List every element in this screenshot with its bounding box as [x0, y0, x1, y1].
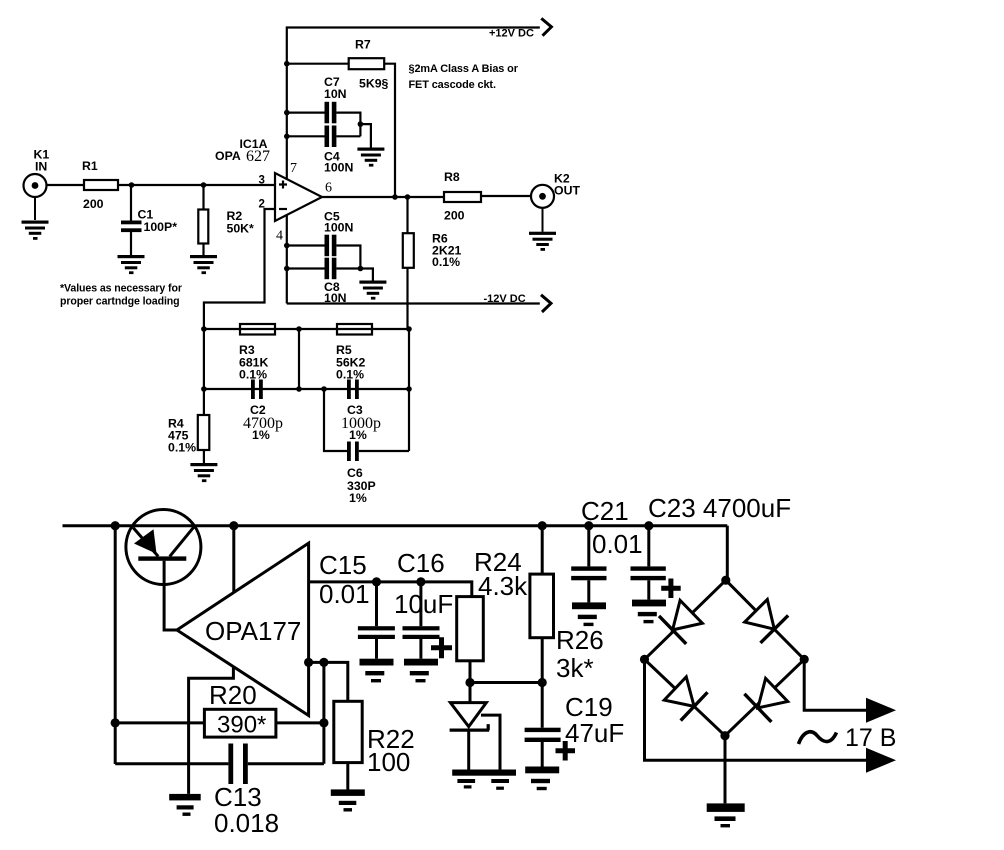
- svg-text:§2mA Class A Bias or: §2mA Class A Bias or: [409, 63, 519, 75]
- svg-text:C6: C6: [347, 466, 363, 480]
- capacitor C23: [631, 493, 792, 600]
- svg-text:0.1%: 0.1%: [239, 368, 267, 382]
- node dot R1/R2: [201, 182, 207, 188]
- node dot output/R7: [392, 194, 398, 200]
- node dot C8: [284, 266, 290, 272]
- capacitor C8: [287, 258, 373, 305]
- feedback row 1 wire: [204, 328, 409, 330]
- svg-text:17 В: 17 В: [845, 724, 896, 752]
- opamp output wire: [309, 582, 472, 597]
- capacitor C13: [115, 744, 324, 839]
- wire node to pin 3: [204, 184, 276, 186]
- svg-text:R1: R1: [82, 159, 98, 173]
- ground C5/C8: [359, 281, 386, 300]
- pin 7 supply rail: [287, 28, 540, 181]
- diode D4 bottom-right: [744, 676, 790, 722]
- svg-text:OUT: OUT: [554, 184, 580, 198]
- ground under R22: [331, 789, 365, 811]
- capacitor C5: [287, 210, 361, 269]
- svg-text:R8: R8: [444, 170, 460, 184]
- right rail row1-C6: [408, 329, 410, 451]
- resistor R3: [239, 324, 275, 382]
- node dot C5: [284, 243, 290, 249]
- AC arrow 2: [866, 748, 896, 773]
- diode D2 top-right: [742, 597, 788, 643]
- link row1-row2: [298, 329, 300, 389]
- resistor R7: [287, 38, 389, 91]
- connector K2: [531, 172, 580, 208]
- node dot row2 mid: [296, 386, 302, 392]
- zener diode D5: [450, 683, 500, 770]
- svg-text:7: 7: [290, 161, 297, 176]
- node dot R26 bottom: [538, 678, 547, 687]
- resistor R2: [198, 185, 254, 255]
- AC arrow 1: [866, 698, 896, 723]
- resistor R22: [334, 701, 415, 791]
- svg-text:3k*: 3k*: [556, 653, 594, 683]
- node dot R7 left: [284, 61, 290, 67]
- bridge top wire: [726, 526, 729, 581]
- capacitor C4: [287, 124, 361, 174]
- node dot C4: [284, 134, 290, 140]
- inverting input loop: [189, 668, 234, 794]
- node dot row1 mid: [296, 326, 302, 332]
- node dot R20 right: [319, 718, 328, 727]
- node dot C15: [372, 577, 381, 586]
- diode D3 bottom-left: [662, 674, 708, 720]
- capacitor C19: [525, 683, 625, 767]
- node dot row1 left: [201, 326, 207, 332]
- svg-text:4.3k: 4.3k: [478, 571, 528, 601]
- node dot C16: [416, 577, 425, 586]
- wire node down to R20/C13: [322, 662, 325, 763]
- svg-text:0.018: 0.018: [214, 808, 279, 838]
- diode D1 top-left: [659, 598, 705, 644]
- node dot C5/C8 common: [358, 266, 364, 272]
- svg-text:100N: 100N: [324, 221, 354, 235]
- svg-text:1%: 1%: [349, 428, 367, 442]
- svg-text:0.1%: 0.1%: [336, 368, 364, 382]
- svg-text:200: 200: [444, 209, 465, 223]
- wire K1 to R1: [47, 184, 85, 186]
- -12V DC arrow: [541, 295, 551, 312]
- node dot output/R6: [405, 194, 411, 200]
- node dot R20 left rail: [111, 718, 120, 727]
- svg-text:+12V DC: +12V DC: [489, 28, 534, 40]
- resistor R6: [403, 197, 462, 269]
- resistor R4: [168, 389, 209, 463]
- resistor R1: [82, 159, 118, 211]
- svg-text:*Values as necessary for: *Values as necessary for: [60, 283, 182, 295]
- svg-text:C21: C21: [581, 496, 629, 526]
- AC tilde: [799, 732, 837, 744]
- node dot rail/R26: [538, 521, 547, 530]
- left rail row1-row2: [203, 329, 205, 389]
- svg-text:200: 200: [83, 197, 104, 211]
- node dot C7: [284, 110, 290, 116]
- AC output wire 2: [645, 659, 871, 760]
- pin 4 wire down: [286, 215, 288, 304]
- ground under R4: [190, 463, 217, 482]
- resistor R8: [444, 170, 481, 223]
- wire R8 to K2: [481, 195, 531, 197]
- svg-text:proper cartndge loading: proper cartndge loading: [60, 296, 180, 308]
- node dot R24 bottom: [465, 678, 474, 687]
- node dot bridge bottom: [720, 731, 729, 740]
- pin 2 wire down to feedback: [204, 209, 275, 329]
- capacitor C21: [571, 496, 642, 602]
- connector K1: [24, 148, 50, 198]
- node dot row1 right: [406, 326, 412, 332]
- output wire pin6 to R8: [322, 196, 444, 198]
- node dot row2 left: [201, 386, 207, 392]
- svg-text:-12V DC: -12V DC: [484, 293, 526, 305]
- node dot row2 C6 tap: [321, 386, 327, 392]
- svg-text:OPA177: OPA177: [205, 616, 301, 646]
- svg-text:0.1%: 0.1%: [432, 255, 460, 269]
- ground C7/C4: [357, 148, 384, 167]
- node dot bridge top: [721, 576, 730, 585]
- svg-text:R26: R26: [556, 625, 604, 655]
- double ground under zener: [452, 770, 516, 790]
- svg-text:4: 4: [276, 229, 283, 244]
- ground under C16: [404, 659, 438, 683]
- opamp V+ wire: [232, 526, 235, 593]
- ground under bridge: [707, 803, 745, 827]
- wire opamp edge to R22: [309, 662, 348, 701]
- capacitor C6 branch: [324, 389, 347, 451]
- node dot feedback: [319, 658, 328, 667]
- svg-text:C15: C15: [319, 550, 367, 580]
- wire R6 down to feedback rail: [406, 268, 408, 330]
- capacitor C16: [394, 548, 453, 659]
- svg-text:C23 4700uF: C23 4700uF: [648, 493, 791, 523]
- wire R24 to R26: [470, 681, 542, 684]
- ground inv loop: [169, 794, 201, 816]
- resistor R26: [530, 526, 604, 683]
- -12V rail: [287, 302, 540, 304]
- ground under C19: [525, 767, 559, 791]
- svg-text:FET cascode ckt.: FET cascode ckt.: [409, 79, 496, 91]
- op-amp U2 OPA177: [177, 543, 309, 715]
- svg-text:627: 627: [246, 148, 270, 165]
- node dot bridge left: [640, 655, 649, 664]
- capacitor C15: [319, 550, 395, 659]
- wire to ground: [360, 124, 371, 147]
- resistor R24: [457, 547, 528, 683]
- svg-text:1%: 1%: [349, 491, 367, 505]
- ground under C1: [118, 255, 145, 274]
- node dot opamp edge: [304, 658, 313, 667]
- main top rail: [63, 524, 728, 527]
- resistor R5: [336, 324, 372, 382]
- svg-text:6: 6: [325, 181, 332, 196]
- op-amp IC1A: [215, 137, 322, 221]
- ground under R2: [190, 255, 217, 274]
- svg-text:R7: R7: [355, 38, 371, 52]
- ground under K1: [22, 197, 49, 240]
- node dot rail/C21: [584, 521, 593, 530]
- svg-text:OPA: OPA: [215, 149, 241, 163]
- svg-text:5K9§: 5K9§: [359, 77, 389, 91]
- resistor R20: [115, 680, 324, 739]
- svg-text:1%: 1%: [252, 428, 270, 442]
- ground under C23: [632, 600, 666, 624]
- svg-text:10uF: 10uF: [394, 589, 453, 619]
- svg-text:C16: C16: [397, 548, 445, 578]
- node dot C7/C4 common: [358, 121, 364, 127]
- transistor Q1: [126, 510, 201, 631]
- svg-text:0.01: 0.01: [592, 529, 643, 559]
- svg-text:R20: R20: [209, 680, 257, 710]
- ground under K2: [529, 208, 556, 251]
- capacitor C3: [341, 380, 381, 443]
- node dot R1/C1: [129, 182, 135, 188]
- bridge side wires: [645, 580, 726, 659]
- bridge bottom ground wire: [724, 736, 727, 804]
- svg-text:3: 3: [259, 175, 265, 187]
- left rail: [114, 526, 117, 764]
- ground under C15: [360, 659, 394, 683]
- wire R1 to node: [118, 184, 204, 186]
- svg-text:0.01: 0.01: [319, 579, 370, 609]
- node dot rail/C23: [644, 521, 653, 530]
- capacitor C2: [243, 380, 283, 443]
- wire R7 right down to output: [384, 64, 395, 197]
- ground under C21: [572, 602, 606, 626]
- feedback row 2 wire: [204, 388, 409, 390]
- node dot rail/left rail: [111, 521, 120, 530]
- node dot row2 right: [406, 386, 412, 392]
- svg-text:390*: 390*: [217, 712, 266, 739]
- AC output wire 1: [804, 659, 870, 710]
- svg-text:IN: IN: [35, 160, 47, 174]
- svg-text:100P*: 100P*: [144, 220, 178, 234]
- node dot rail/opamp V+: [229, 521, 238, 530]
- svg-text:47uF: 47uF: [565, 718, 624, 748]
- node dot bridge right: [800, 655, 809, 664]
- svg-text:0.1%: 0.1%: [168, 441, 196, 455]
- +12V DC arrow: [541, 18, 551, 35]
- capacitor C7: [287, 75, 361, 124]
- svg-text:10N: 10N: [324, 87, 347, 101]
- svg-text:50K*: 50K*: [227, 222, 255, 236]
- svg-text:100N: 100N: [324, 161, 354, 175]
- capacitor C1: [121, 185, 177, 255]
- svg-text:100: 100: [367, 747, 410, 777]
